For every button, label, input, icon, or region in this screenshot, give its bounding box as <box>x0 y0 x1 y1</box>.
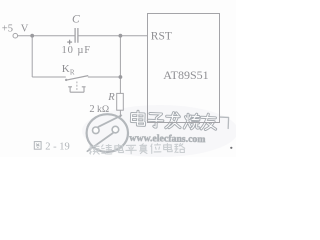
svg-text:R: R <box>70 68 75 76</box>
svg-text:R: R <box>107 92 115 103</box>
svg-text:AT89S51: AT89S51 <box>163 68 208 82</box>
svg-text:+5: +5 <box>2 24 13 35</box>
svg-text:RST: RST <box>151 31 172 43</box>
svg-text:C: C <box>72 14 80 26</box>
svg-text:10 µF: 10 µF <box>62 45 92 56</box>
svg-text:K: K <box>62 63 70 75</box>
svg-text:2 - 19: 2 - 19 <box>45 142 70 153</box>
svg-text:2: 2 <box>89 104 94 115</box>
svg-text:kΩ: kΩ <box>97 104 109 115</box>
svg-text:V: V <box>21 24 29 35</box>
